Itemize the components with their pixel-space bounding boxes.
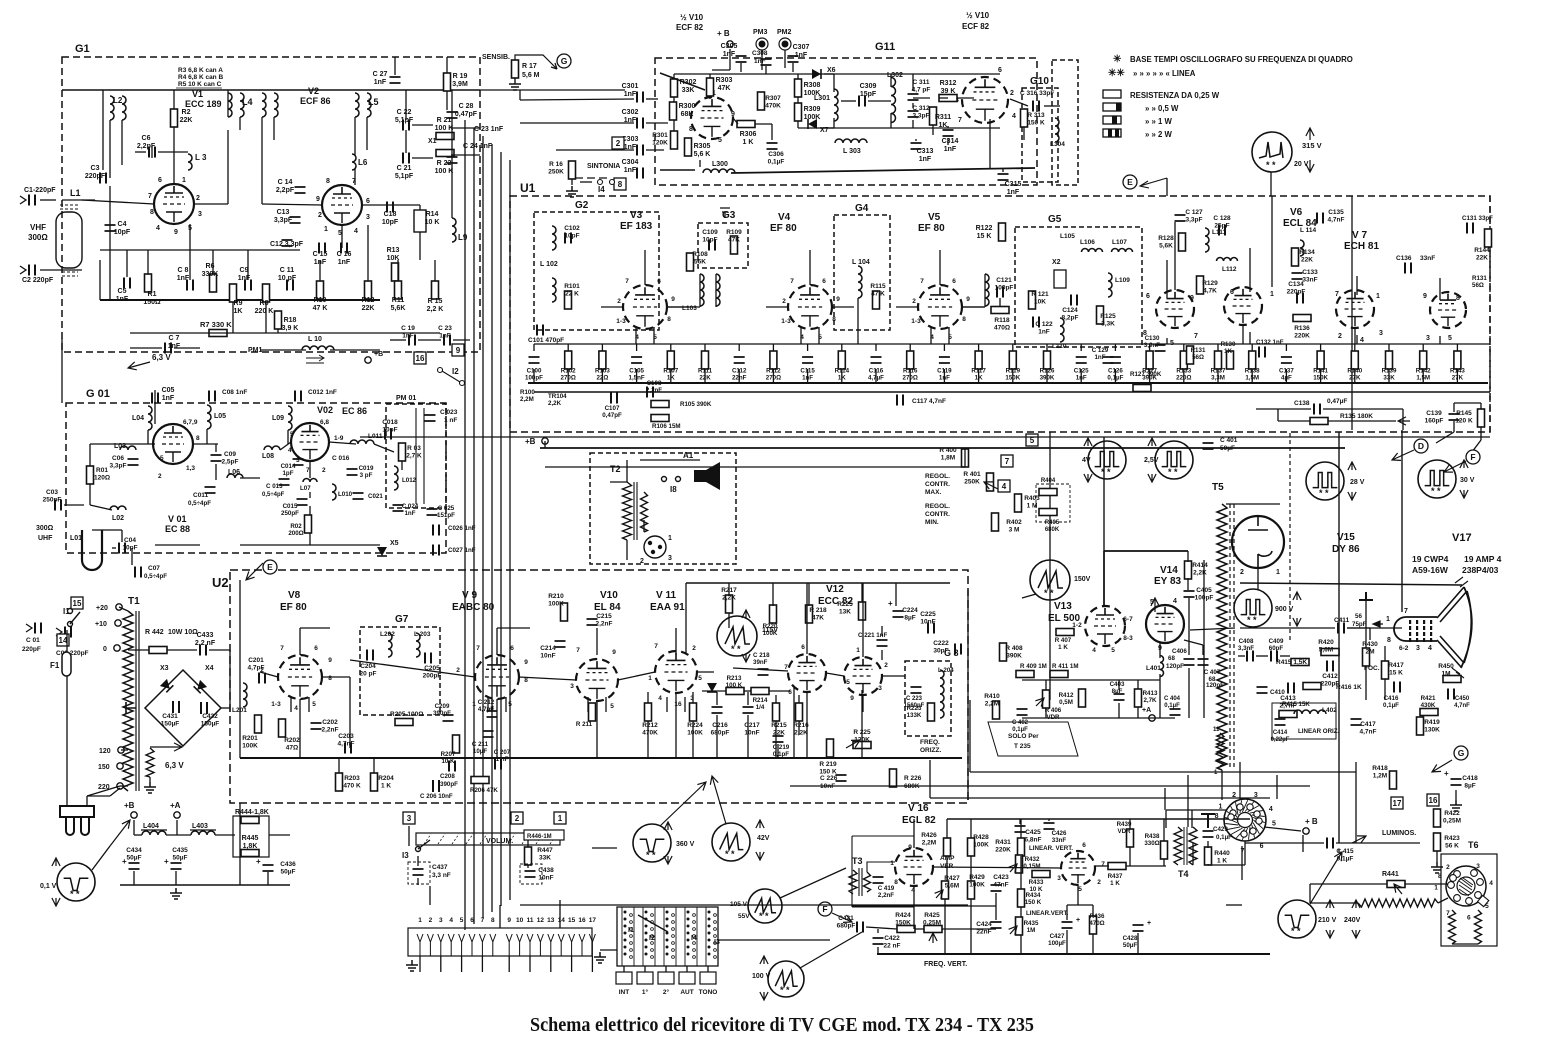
resistor R7 330K: [209, 330, 227, 337]
transformer T2 primary zigzag: [623, 482, 632, 540]
wire yoke down: [1241, 846, 1243, 880]
svg-text:C403: C403: [1110, 681, 1125, 688]
oscillogram 42V: [712, 823, 750, 861]
svg-text:EF 80: EF 80: [918, 223, 945, 234]
wire E to U1 edge: [1166, 178, 1168, 196]
wire V6b pin stub down: [1242, 325, 1244, 344]
wire V16 mid node: [852, 905, 996, 907]
svg-text:1: 1: [1386, 616, 1390, 623]
inductor L4: [228, 93, 232, 117]
resistor R17 5,6M: [512, 60, 519, 78]
capacitor C23b 1nF: [444, 335, 450, 346]
inductor L06: [227, 474, 243, 478]
svg-text:½ V10: ½ V10: [966, 11, 990, 20]
resistor R105 390K: [651, 401, 669, 408]
oscillogram 105V: [748, 889, 782, 923]
svg-text:17: 17: [1393, 799, 1402, 808]
resistor R102 270Ω: [565, 351, 572, 369]
capacitor C226 10nF: [836, 775, 847, 781]
wire to V12a: [733, 668, 788, 671]
svg-text:R201: R201: [242, 735, 258, 742]
resistor R19 3,9M: [444, 73, 451, 91]
wire L5 down: [354, 117, 356, 155]
svg-text:C225: C225: [920, 611, 936, 618]
svg-text:2,5V: 2,5V: [1144, 457, 1159, 464]
resistor R402 3M: [992, 513, 999, 531]
capacitor C128 25pF: [1219, 225, 1225, 236]
svg-text:2: 2: [616, 139, 621, 148]
svg-text:R432: R432: [1025, 856, 1040, 863]
svg-text:V 16: V 16: [908, 803, 929, 814]
svg-text:L301: L301: [814, 95, 830, 102]
wire C421 to R424: [866, 927, 897, 929]
resistor R312 39K: [939, 95, 957, 102]
svg-text:1nF: 1nF: [795, 52, 808, 59]
svg-text:150K: 150K: [895, 920, 911, 927]
wire U1 tube1 grid top stub: [644, 250, 646, 285]
svg-text:6: 6: [470, 917, 474, 924]
resistor R22 100K: [436, 150, 454, 157]
svg-text:19 CWP4: 19 CWP4: [1412, 554, 1449, 564]
svg-text:10pF: 10pF: [702, 237, 717, 244]
svg-text:1nF: 1nF: [168, 343, 181, 350]
svg-text:R 401: R 401: [963, 471, 981, 478]
svg-text:5,6 K: 5,6 K: [694, 151, 711, 158]
wire yoke pin7 down: [1244, 841, 1246, 865]
svg-text:8: 8: [689, 126, 693, 133]
wire U1 tube3 grid top stub: [939, 250, 941, 285]
capacitor C221 1nF: [877, 640, 888, 646]
tuner pin 16: [579, 934, 585, 956]
svg-text:R418: R418: [1372, 765, 1388, 772]
svg-text:3,9 K: 3,9 K: [282, 325, 299, 332]
svg-text:G7: G7: [395, 614, 409, 625]
svg-text:* *: * *: [70, 889, 80, 899]
svg-text:R311: R311: [935, 114, 951, 121]
inductor L202: [388, 633, 392, 657]
svg-text:1-3: 1-3: [781, 318, 791, 325]
svg-text:EY 83: EY 83: [1154, 576, 1181, 587]
svg-text:+B: +B: [374, 351, 383, 358]
inductor L3: [188, 154, 192, 170]
svg-text:VHF: VHF: [30, 223, 46, 232]
svg-text:L 204: L 204: [938, 667, 954, 674]
svg-text:3,3pF: 3,3pF: [110, 463, 127, 470]
capacitor C222 30pF: [955, 644, 961, 655]
resistor R210 100K: [561, 603, 568, 621]
transformer T3 secondary: [864, 872, 871, 892]
capacitor C307 1nF: [788, 56, 799, 62]
wire PM3 down: [761, 50, 763, 70]
inductor L03: [120, 446, 136, 450]
capacitor C211 10uF: [483, 731, 494, 737]
resistor R414 2,2K: [1185, 561, 1192, 579]
capacitor C121 100pF: [997, 287, 1003, 298]
oscillogram 150V: [1030, 560, 1070, 600]
capacitor C11 10pF: [287, 280, 293, 291]
svg-text:3: 3: [407, 814, 412, 823]
svg-text:C131 33pF: C131 33pF: [1462, 215, 1493, 222]
block G5 dashed box: [1015, 227, 1142, 347]
resistor R413 2,7K: [1135, 689, 1142, 707]
capacitor C107 0,47pF: [611, 393, 617, 404]
svg-text:C209: C209: [435, 703, 450, 710]
svg-text:CONTR.: CONTR.: [925, 481, 950, 488]
resistor R417 15K: [1382, 661, 1389, 679]
antenna stub G3: [720, 208, 730, 218]
svg-text:C136: C136: [1396, 255, 1412, 262]
inductor L109: [1108, 273, 1112, 297]
resistor R419 130K: [1417, 717, 1424, 735]
arrow C415: [1352, 836, 1366, 843]
svg-text:1nF: 1nF: [1007, 189, 1020, 196]
capacitor C408 3,3nF: [1247, 651, 1253, 662]
capacitor C305 1nF: [736, 56, 747, 62]
svg-text:R13: R13: [387, 247, 400, 254]
ground R16: [566, 186, 578, 197]
svg-text:3: 3: [1057, 875, 1061, 882]
wire L103b down: [715, 274, 717, 307]
svg-text:2: 2: [456, 667, 460, 674]
tuner pin 9: [506, 934, 512, 956]
wire U1 tube3 pin4 stub: [930, 327, 932, 344]
wire R439 to node: [1129, 847, 1131, 866]
resistor R442 10W: [149, 647, 167, 654]
svg-text:56Ω: 56Ω: [1472, 282, 1484, 289]
resistor R131b 56: [1187, 346, 1194, 364]
capacitor C403 8uF: [1114, 694, 1125, 700]
svg-text:1-9: 1-9: [334, 435, 344, 442]
tube V2 ECF86: [322, 185, 362, 225]
svg-text:68: 68: [1168, 655, 1175, 662]
svg-text:V3: V3: [630, 210, 643, 221]
inductor L08: [264, 446, 280, 450]
svg-text:Schema elettrico del ricevi: Schema elettrico del ricevitore di TV CG…: [530, 1014, 1034, 1036]
inductor L304: [1055, 118, 1059, 142]
inductor L5: [355, 93, 359, 117]
wire U1 tube3 pin5 stub: [948, 327, 950, 344]
resistor R211: [589, 703, 596, 721]
capacitor C116 4,7µF: [871, 357, 882, 363]
svg-text:R436: R436: [1090, 913, 1105, 920]
svg-text:10pF: 10pF: [382, 219, 399, 226]
inductor L1 core dashes: [60, 205, 78, 276]
capacitor C021 cap: [353, 493, 364, 499]
svg-text:8-3: 8-3: [1123, 635, 1133, 642]
capacitor C122 1nF: [1033, 317, 1039, 328]
terminal PM2: [782, 41, 789, 48]
resistor R112 270Ω: [770, 351, 777, 369]
svg-text:R412: R412: [1059, 692, 1074, 699]
svg-text:22K: 22K: [180, 117, 193, 124]
svg-text:R214: R214: [753, 697, 768, 704]
svg-text:15 K: 15 K: [977, 233, 992, 240]
svg-text:* *: * *: [1431, 486, 1441, 496]
wire C139 up: [1453, 403, 1455, 412]
svg-text:C406: C406: [1172, 648, 1187, 655]
capacitor C7 1nF: [165, 343, 171, 354]
tube V10 EL84: [576, 659, 618, 701]
svg-text:R437: R437: [1108, 873, 1123, 880]
svg-text:7: 7: [958, 117, 962, 124]
inductor L403 underline: [190, 829, 216, 831]
svg-text:ECH 81: ECH 81: [1344, 241, 1379, 252]
inductor L6: [352, 154, 356, 170]
svg-text:4,7pF: 4,7pF: [248, 665, 265, 672]
svg-text:250K: 250K: [548, 169, 564, 176]
svg-text:V10: V10: [600, 590, 618, 601]
svg-text:1: 1: [856, 647, 860, 654]
svg-text:1: 1: [418, 917, 422, 924]
wire V16 grid up: [913, 819, 915, 848]
svg-text:C018: C018: [382, 419, 398, 426]
capacitor C4 10pF: [105, 225, 116, 231]
capacitor C432 150uF: [201, 702, 207, 714]
svg-text:1nF: 1nF: [439, 333, 451, 340]
wire into C138: [1256, 408, 1311, 410]
wire L4 down1: [227, 90, 229, 117]
wire oscillo 105V pointer: [780, 868, 846, 898]
pot arrow R225: [846, 740, 860, 748]
svg-text:4: 4: [1092, 647, 1096, 654]
svg-text:C304: C304: [622, 159, 639, 166]
svg-text:220K: 220K: [1294, 333, 1310, 340]
svg-text:L2: L2: [113, 96, 123, 105]
svg-text:C09: C09: [224, 451, 236, 458]
svg-text:13: 13: [547, 917, 555, 924]
wire AGC to G11: [480, 89, 625, 91]
svg-text:100K: 100K: [687, 730, 703, 737]
capacitor C024 1nF: [393, 505, 404, 511]
resistor R121 10K: [1029, 291, 1036, 309]
svg-text:8µF: 8µF: [1464, 783, 1475, 790]
capacitor C22 5,1pF: [403, 120, 409, 131]
capacitor C225 10nF: [928, 623, 934, 634]
yoke hatch: [1225, 800, 1265, 840]
antenna arrows UHF: [26, 624, 62, 636]
resistor R313 150K: [1021, 109, 1028, 127]
capacitor C018 10pF: [385, 429, 391, 440]
capacitor C07 0,5-4pF trimmer: [135, 567, 141, 578]
svg-text:150µF: 150µF: [201, 721, 220, 728]
svg-text:C450: C450: [1455, 696, 1470, 702]
svg-text:33nF: 33nF: [1052, 837, 1067, 844]
svg-text:VOLUM.: VOLUM.: [486, 838, 513, 845]
svg-text:SENSIB.: SENSIB.: [482, 54, 510, 61]
svg-text:R 409 1M: R 409 1M: [1020, 663, 1047, 670]
oscillogram 900V: [1234, 589, 1272, 627]
svg-text:5: 5: [160, 455, 164, 462]
L10 arrows: [306, 355, 324, 363]
inductor L5b: [367, 93, 371, 117]
capacitor C18 10pF: [387, 202, 393, 213]
inductor L110: [1060, 318, 1064, 342]
capacitor C135 4,7nF: [1317, 213, 1323, 224]
capacitor C102 10pF: [565, 233, 571, 244]
svg-text:L08: L08: [262, 453, 274, 460]
resistor R311 1K: [930, 107, 937, 125]
svg-text:C408: C408: [1239, 638, 1254, 645]
capacitor C139 160pF: [1449, 414, 1460, 420]
svg-text:C 219: C 219: [773, 744, 790, 751]
svg-text:* *: * *: [646, 850, 656, 860]
svg-text:C015: C015: [283, 503, 298, 510]
inductor L302: [891, 78, 896, 123]
wire V1 cathode down: [189, 224, 191, 280]
resistor R137 3,3M: [1215, 351, 1222, 369]
wire PM2 down: [784, 50, 786, 68]
svg-text:1K: 1K: [1224, 348, 1232, 355]
wire C139 down: [1453, 421, 1455, 432]
svg-text:I2: I2: [649, 935, 655, 942]
capacitor C418 8uF: [1451, 779, 1462, 785]
capacitor C214 10nF: [555, 641, 566, 647]
wire U1 tube1 anode stub: [667, 306, 689, 308]
svg-text:C 013: C 013: [266, 483, 283, 490]
svg-text:50µF: 50µF: [1123, 942, 1137, 949]
svg-text:50µF: 50µF: [1220, 445, 1235, 452]
svg-text:L109: L109: [1115, 277, 1130, 284]
svg-text:V5: V5: [928, 212, 941, 223]
svg-text:C314: C314: [942, 138, 959, 145]
wire U2 tube4 pin4 stub: [666, 697, 668, 712]
wire 210V pointer: [1310, 852, 1342, 904]
wire EY83 cathode to L401: [1159, 643, 1161, 658]
svg-text:150Ω: 150Ω: [143, 299, 161, 306]
inductor L303: [835, 139, 867, 143]
capacitor C421 680pF: [857, 922, 863, 933]
resistor R306 1K: [737, 121, 755, 128]
svg-text:2,2K: 2,2K: [1193, 570, 1207, 577]
wire V13 anode up: [1103, 551, 1105, 606]
R441 heater zigzag: [1358, 899, 1438, 907]
resistor R425 0,25M: [924, 926, 942, 933]
resistor R433 10K: [1032, 871, 1050, 878]
svg-text:R 17: R 17: [522, 63, 537, 70]
svg-text:1: 1: [324, 226, 328, 233]
svg-text:R403: R403: [1024, 495, 1040, 502]
resistor R143 27K: [1454, 351, 1461, 369]
svg-text:I2: I2: [452, 367, 459, 376]
svg-text:9: 9: [316, 196, 320, 203]
arrow 100V: [760, 956, 768, 964]
svg-text:T6: T6: [1468, 840, 1479, 850]
arrow crt grid: [1373, 621, 1383, 627]
inductor L4b: [240, 93, 244, 117]
pot arrow R401: [984, 482, 1000, 490]
svg-text:100K: 100K: [804, 114, 821, 121]
svg-text:5: 5: [718, 137, 722, 144]
wire V7 pin stub down: [1354, 328, 1356, 344]
svg-text:2,2 nF: 2,2 nF: [195, 640, 216, 647]
svg-text:C216: C216: [712, 722, 728, 729]
yoke pin 1: [1230, 810, 1236, 816]
inductor L2b: [122, 96, 126, 120]
svg-text:33nF: 33nF: [1302, 277, 1317, 284]
svg-text:R125: R125: [1100, 313, 1116, 320]
tuner pin 12: [537, 934, 543, 956]
resistor R225 120K: [853, 742, 871, 749]
wire U2 right edge inner vertical: [967, 590, 969, 800]
svg-text:6: 6: [1082, 842, 1086, 849]
svg-text:V17: V17: [1452, 532, 1472, 544]
wire C3 to bus: [109, 186, 111, 300]
wire +B down: [729, 49, 731, 70]
tube V16a ECL82 pentode: [895, 848, 933, 886]
capacitor C019 3pF: [347, 469, 358, 475]
svg-text:8: 8: [326, 178, 330, 185]
resistor R6 330K: [210, 274, 217, 292]
capacitor C216 680pF: [712, 707, 723, 713]
svg-text:9: 9: [731, 111, 735, 118]
svg-text:9: 9: [966, 296, 970, 303]
resistor R418 1,2M: [1390, 771, 1397, 789]
inductor L201: [243, 683, 247, 707]
svg-text:R9: R9: [234, 300, 243, 307]
svg-text:2,2K: 2,2K: [548, 400, 562, 407]
svg-text:19 AMP 4: 19 AMP 4: [1464, 554, 1502, 564]
svg-text:X4: X4: [205, 665, 214, 672]
svg-text:R426: R426: [921, 832, 937, 839]
svg-text:C426: C426: [1052, 830, 1067, 837]
svg-text:6: 6: [801, 644, 805, 651]
svg-text:* *: * *: [1101, 467, 1111, 477]
inductor L10: [302, 346, 334, 350]
svg-text:10nF: 10nF: [538, 875, 553, 882]
svg-text:+: +: [256, 857, 261, 866]
capacitor C138 0,47uF: [1314, 404, 1320, 415]
svg-text:R431: R431: [995, 839, 1011, 846]
wire V16a anode to V16b grid: [933, 867, 1061, 868]
svg-text:8: 8: [1387, 637, 1391, 644]
node 4 boxed: [998, 480, 1010, 492]
piano key button 1°: [637, 972, 653, 984]
svg-text:ECL 82: ECL 82: [902, 815, 936, 826]
svg-text:7: 7: [280, 645, 284, 652]
piano diagonal link: [638, 915, 668, 932]
svg-text:4,7K: 4,7K: [1203, 288, 1217, 295]
svg-text:2,2M: 2,2M: [922, 840, 936, 847]
wire U1 tube2 pin5 stub: [818, 327, 820, 344]
tube V7b triode: [1430, 292, 1466, 328]
svg-text:28 V: 28 V: [1350, 479, 1365, 486]
piano key button AUT: [679, 972, 695, 984]
wire R444 out: [269, 834, 290, 836]
svg-text:R 400: R 400: [939, 447, 957, 454]
svg-text:LINEAR. VERT.: LINEAR. VERT.: [1029, 845, 1073, 852]
svg-text:R430: R430: [1362, 641, 1378, 648]
svg-text:10nF: 10nF: [744, 730, 759, 737]
svg-text:E: E: [1127, 177, 1133, 187]
svg-text:1 K: 1 K: [1217, 858, 1227, 865]
svg-text:2: 2: [322, 467, 326, 474]
antenna arrow C1: [20, 196, 26, 204]
resistor R02 200ohm: [305, 515, 312, 533]
resistor R435 1M: [1016, 917, 1023, 935]
svg-text:C 025: C 025: [438, 505, 455, 512]
wire C6 stub: [151, 146, 153, 158]
transformer T2 secondary: [641, 492, 648, 532]
capacitor C101 470pF: [537, 325, 543, 336]
svg-text:20 pF: 20 pF: [360, 671, 377, 678]
wire C433 to bridge: [229, 650, 231, 712]
svg-text:REGOL.: REGOL.: [925, 503, 950, 510]
resistor R107 1K: [667, 351, 674, 369]
capacitor C02 220pF: [65, 627, 71, 638]
svg-text:* *: * *: [1291, 926, 1301, 936]
capacitor C112 22nF: [734, 357, 745, 363]
capacitor C219 0,1pF: [773, 736, 784, 742]
